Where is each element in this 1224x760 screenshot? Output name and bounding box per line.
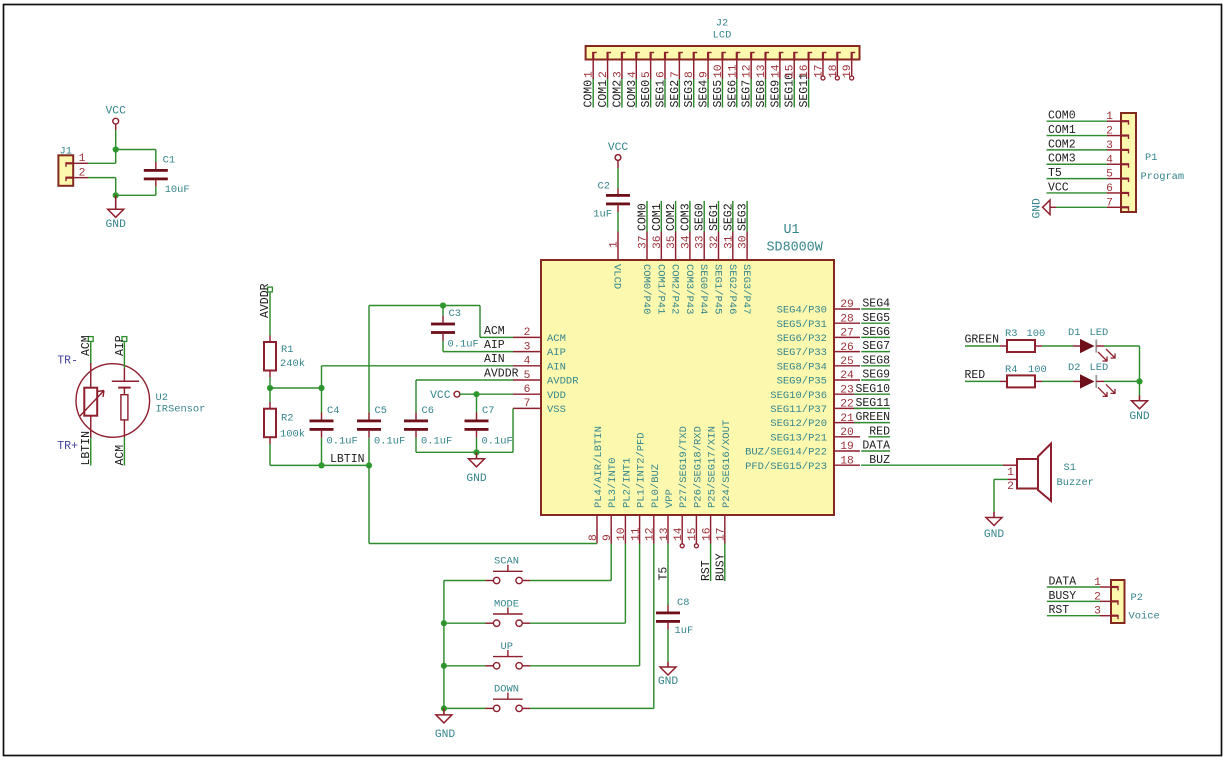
pin 4 of P1 (COM3) [1121,163,1129,165]
pin 17 of U1 (P24/SEG16/XOUT) [724,515,726,544]
svg-text:ACM: ACM [547,333,566,345]
resistor R2 [269,388,271,402]
svg-text:25: 25 [840,356,854,368]
svg-text:2: 2 [524,327,531,339]
wire UP to pin11 [530,665,640,667]
wire R3 to D1 [1042,345,1073,347]
pin 30 of U1 (SEG3) [746,232,748,261]
wire AIP row [443,351,513,353]
svg-text:VCC: VCC [430,390,451,402]
svg-text:SEG4: SEG4 [862,298,890,311]
pin 9 of J2 (SEG4) [707,53,709,60]
svg-text:R3: R3 [1005,328,1017,340]
svg-text:36: 36 [652,235,664,249]
pin 4 of J2 (COM3) [635,53,637,60]
svg-text:7: 7 [1106,197,1113,209]
svg-text:2: 2 [1007,481,1014,493]
wire DOWN to pin12 [530,707,654,709]
svg-text:UP: UP [501,641,513,653]
svg-text:RST: RST [700,560,713,581]
pin 2 of P1 (COM1) [1121,134,1129,136]
svg-text:COM1: COM1 [651,203,664,231]
pin 14 of U1 (P27/SEG19/TXD) [681,515,683,544]
node C5 bottom junction [366,462,372,468]
pin 6 of P1 (VCC) [1121,192,1129,194]
svg-text:COM3: COM3 [679,203,692,231]
node rail at UP [441,663,447,669]
pin 11 of U1 (PL1/INT2/PFD) [639,515,641,544]
wire AVDDR row to C6 [416,379,513,381]
svg-text:5: 5 [1106,169,1113,181]
svg-text:LCD: LCD [713,30,732,42]
svg-text:J1: J1 [60,145,72,157]
svg-text:9: 9 [699,71,711,78]
svg-text:C7: C7 [482,405,494,417]
svg-text:COM2: COM2 [1048,138,1076,151]
svg-text:SEG2/P46: SEG2/P46 [726,264,738,314]
svg-text:SEG10: SEG10 [855,383,890,396]
pin 7 of P1 with ground [1121,206,1129,208]
ground (analog) [476,452,478,459]
pin 6 of U1 (VDD) [513,393,541,395]
svg-text:COM3: COM3 [626,80,639,108]
svg-text:1: 1 [1007,467,1014,479]
svg-text:PFD/SEG15/P23: PFD/SEG15/P23 [745,461,827,473]
svg-text:6: 6 [1106,183,1113,195]
svg-text:PL2/INT1: PL2/INT1 [621,458,633,508]
wire junction to C1 top [116,149,156,151]
svg-text:28: 28 [840,313,854,325]
pin 7 of U1 (VSS) [513,407,541,409]
svg-text:P25/SEG17/XIN: P25/SEG17/XIN [707,426,719,508]
svg-text:100k: 100k [280,429,305,441]
svg-text:SEG1: SEG1 [708,203,721,231]
svg-text:SEG7/P33: SEG7/P33 [777,347,827,359]
svg-text:COM1: COM1 [597,80,610,108]
svg-text:11: 11 [727,64,739,78]
wire ACM rail top [369,305,480,307]
svg-text:S1: S1 [1064,462,1076,474]
svg-text:SEG5: SEG5 [712,80,725,108]
pin 12 of J2 (SEG7) [750,53,752,60]
svg-text:COM1/P41: COM1/P41 [654,264,666,314]
svg-text:ACM: ACM [80,335,93,356]
svg-text:SEG6: SEG6 [862,326,890,339]
wire J1 pin1 to VCC [88,162,116,164]
svg-text:37: 37 [638,235,650,249]
svg-text:4: 4 [524,356,531,368]
net AVDDR power label [268,287,273,292]
svg-text:5: 5 [524,370,531,382]
svg-text:SEG3: SEG3 [737,203,750,231]
wire VCC to VDD pin [460,393,513,395]
svg-text:SEG10/P36: SEG10/P36 [770,390,827,402]
svg-text:4: 4 [1106,154,1113,166]
svg-text:AVDDR: AVDDR [547,376,579,388]
svg-text:18: 18 [828,64,840,78]
capacitor C8 [667,605,669,612]
svg-text:GND: GND [984,529,1005,541]
pin 2 of J1 [73,177,88,179]
svg-text:10uF: 10uF [165,184,190,196]
pin 15 of J2 (SEG10) [793,53,795,60]
wire D2 to junction [1104,380,1140,382]
capacitor C4 [321,388,323,413]
wire VSS ground rail [416,451,513,453]
svg-text:C5: C5 [375,405,387,417]
pin 1 of J2 (COM0) [592,53,594,60]
pin 18 of J2 (unconnected) [836,53,838,60]
svg-text:SEG0: SEG0 [640,80,653,108]
svg-text:COM2: COM2 [611,80,624,108]
pin 23 of U1 (SEG10) [834,393,860,395]
resistor R1 [269,336,271,343]
svg-text:1: 1 [1106,111,1113,123]
svg-text:10: 10 [616,527,628,541]
svg-text:SEG11/P37: SEG11/P37 [770,404,827,416]
svg-text:18: 18 [840,455,854,467]
svg-text:SEG6/P32: SEG6/P32 [777,333,827,345]
svg-text:23: 23 [840,384,854,396]
connector J1 [58,155,73,186]
svg-text:SEG3: SEG3 [683,80,696,108]
svg-text:PL4/AIR/LBTIN: PL4/AIR/LBTIN [593,426,605,508]
net label RED [965,380,1000,382]
op-chip U1 body [541,260,834,515]
wire AIN net [321,366,323,388]
svg-text:13: 13 [756,64,768,78]
pin 1 of S1 [1003,464,1017,466]
power VCC (VDD) [454,391,460,397]
svg-text:DOWN: DOWN [494,684,519,696]
svg-text:MODE: MODE [494,598,519,610]
pin 20 of U1 (RED) [834,436,860,438]
svg-text:17: 17 [716,527,728,541]
svg-text:AIN: AIN [547,361,566,373]
pin 2 of U1 (ACM) [513,336,541,338]
svg-text:2: 2 [1106,126,1113,138]
pin 1 of J1 [73,162,88,164]
svg-text:C1: C1 [163,155,175,167]
svg-text:J2: J2 [716,18,728,30]
net stub AIP (sensor top-right) [122,337,127,342]
capacitor C3 [442,306,444,316]
svg-text:16: 16 [799,64,811,78]
net stub ACM (sensor top-left) [88,337,93,342]
svg-text:R4: R4 [1005,364,1017,376]
svg-text:U2: U2 [156,392,168,404]
node VDD junction [473,391,479,397]
node GND junction (J1) [113,192,119,198]
pin 27 of U1 (SEG6) [834,336,860,338]
svg-text:R2: R2 [281,413,293,425]
svg-text:COM3/P43: COM3/P43 [683,264,695,314]
pin 28 of U1 (SEG5) [834,322,860,324]
pin 1 of U1 (VLCD) with C2 and VCC [615,155,621,161]
svg-text:ACM: ACM [484,325,505,338]
svg-text:RST: RST [1049,604,1070,617]
node rail at MODE [441,620,447,626]
pin 1 of P2 (DATA) [1111,586,1118,588]
svg-text:C6: C6 [422,405,434,417]
wire divider horizontal [270,387,322,389]
svg-text:SEG5/P31: SEG5/P31 [777,319,827,331]
svg-text:LED: LED [1090,362,1109,374]
svg-text:SEG7: SEG7 [741,80,754,108]
svg-text:SEG6: SEG6 [726,80,739,108]
svg-text:VCC: VCC [1048,181,1069,194]
svg-text:GND: GND [658,676,679,688]
pin 19 of U1 (DATA) [834,450,860,452]
connector J2 body [586,46,860,60]
pin 22 of U1 (SEG11) [834,407,860,409]
svg-text:SEG0: SEG0 [694,203,707,231]
pin 14 of J2 (SEG9) [779,53,781,60]
wire J1 pin2 to GND rail [88,177,116,179]
thermopile junction inside U2 [123,368,125,381]
svg-text:2: 2 [598,71,610,78]
pin 3 of U1 (AIP) [513,351,541,353]
svg-text:1: 1 [584,71,596,78]
pin 3 of P1 (COM2) [1121,149,1129,151]
svg-text:100: 100 [1028,364,1047,376]
pin 10 of U1 (PL2/INT1) [624,515,626,544]
svg-text:0.1uF: 0.1uF [421,436,452,448]
svg-text:SEG3/P47: SEG3/P47 [740,264,752,314]
net stub LBTIN (sensor bottom-left) [90,438,92,466]
thermistor inside U2 [90,363,92,388]
svg-text:PL3/INT0: PL3/INT0 [607,458,619,508]
svg-text:SEG2: SEG2 [722,203,735,231]
svg-text:1uF: 1uF [675,625,694,637]
svg-text:AIP: AIP [547,347,566,359]
pin 3 of J2 (COM2) [621,53,623,60]
svg-text:SEG11: SEG11 [855,397,890,410]
svg-text:T5: T5 [658,567,671,581]
net label RST (pin16) [710,544,712,582]
svg-text:32: 32 [709,235,721,249]
svg-text:D1: D1 [1068,327,1080,339]
svg-text:SEG9: SEG9 [862,369,890,382]
svg-text:SEG0/P44: SEG0/P44 [697,264,709,314]
pin 12 of U1 (PL0/BUZ) [653,515,655,544]
svg-text:31: 31 [723,235,735,249]
svg-text:15: 15 [785,64,797,78]
svg-text:SEG2: SEG2 [669,80,682,108]
svg-text:3: 3 [612,71,624,78]
svg-text:D2: D2 [1068,362,1080,374]
svg-text:14: 14 [673,527,685,541]
switch SCAN [444,580,486,582]
pin 17 of J2 (unconnected) [822,53,824,60]
pin 8 of J2 (SEG3) [693,53,695,60]
svg-text:P27/SEG19/TXD: P27/SEG19/TXD [678,426,690,508]
node C4 bottom junction [318,462,324,468]
svg-text:SEG4: SEG4 [698,80,711,108]
diode D2 LED [1073,380,1080,382]
pin 3 of P2 (RST) [1111,615,1118,617]
wire R4 to D2 [1042,380,1073,382]
resistor R4 [1000,380,1007,382]
pin 10 of J2 (SEG5) [721,53,723,60]
svg-text:27: 27 [840,328,854,340]
svg-text:30: 30 [738,235,750,249]
svg-text:DATA: DATA [1049,575,1077,588]
svg-text:COM2/P42: COM2/P42 [669,264,681,314]
svg-text:Voice: Voice [1129,611,1160,623]
pin 31 of U1 (SEG2) [732,232,734,261]
pin 2 of P2 (BUSY) [1111,600,1118,602]
pin 15 unconnected circle [694,544,698,548]
svg-text:U1: U1 [784,223,800,238]
svg-text:0.1uF: 0.1uF [374,436,405,448]
svg-text:GREEN: GREEN [965,334,1000,347]
svg-text:GND: GND [1129,411,1150,423]
pin 15 of U1 (P26/SEG18/RXD) [695,515,697,544]
pin 37 of U1 (COM0) [646,232,648,261]
svg-text:AIN: AIN [484,353,505,366]
svg-text:COM0: COM0 [637,203,650,231]
svg-text:C3: C3 [449,308,461,320]
svg-text:0.1uF: 0.1uF [448,339,479,351]
svg-text:BUSY: BUSY [714,553,727,581]
wire VCC to junction [115,124,117,130]
svg-text:34: 34 [680,235,692,249]
svg-text:SEG9/P35: SEG9/P35 [777,376,827,388]
svg-text:SEG1/P45: SEG1/P45 [712,264,724,314]
svg-text:3: 3 [524,341,531,353]
svg-text:16: 16 [701,527,713,541]
pin 5 of J2 (SEG0) [650,53,652,60]
svg-text:2: 2 [79,167,86,179]
ground (buzzer) [993,512,995,518]
capacitor C5 [368,306,370,413]
svg-text:SEG8: SEG8 [862,354,890,367]
svg-text:8: 8 [684,71,696,78]
wire LBTIN rail [270,464,369,466]
connector P2 body [1111,580,1125,623]
wire C1 bottom to GND junction [155,180,157,186]
svg-text:P26/SEG18/RXD: P26/SEG18/RXD [692,426,704,508]
svg-text:19: 19 [842,64,854,78]
svg-text:1uF: 1uF [593,209,612,221]
svg-text:LED: LED [1090,327,1109,339]
svg-text:VLCD: VLCD [611,264,623,289]
svg-text:SEG9: SEG9 [769,80,782,108]
pin 14 unconnected circle [680,544,684,548]
svg-text:12: 12 [645,527,657,541]
svg-text:9: 9 [602,534,614,541]
node divider junction [267,385,273,391]
pin 2 of J2 (COM1) [606,53,608,60]
svg-text:GND: GND [106,219,127,231]
svg-text:SD8000W: SD8000W [767,241,824,256]
net label BUSY (pin17) [724,544,726,582]
ground (buttons) [443,708,445,715]
svg-text:PL0/BUZ: PL0/BUZ [650,464,662,508]
svg-text:T5: T5 [1048,167,1062,180]
svg-text:TR+: TR+ [57,440,78,453]
svg-text:COM0: COM0 [583,80,596,108]
svg-text:AIP: AIP [484,339,505,352]
svg-text:21: 21 [840,413,854,425]
svg-text:LBTIN: LBTIN [80,431,93,466]
wire pin8 to LBTIN net [369,543,597,545]
svg-text:15: 15 [687,527,699,541]
net label GREEN [965,345,1000,347]
pin 25 of U1 (SEG8) [834,365,860,367]
wire SCAN to pin9 [530,580,611,582]
pin 5 of P1 (T5) [1121,178,1129,180]
wire MODE to pin10 [530,622,625,624]
wire R1 bottom to divider node [269,377,271,388]
pin 13 of J2 (SEG8) [764,53,766,60]
wire D1 to corner [1104,345,1140,347]
pin 21 of U1 (GREEN) [834,422,860,424]
pin 35 of U1 (COM2) [675,232,677,261]
pin 16 of U1 (P25/SEG17/XIN) [710,515,712,544]
svg-text:17: 17 [813,64,825,78]
svg-text:RED: RED [965,369,986,382]
svg-text:AIP: AIP [114,335,127,356]
node LED cathode junction [1136,378,1142,384]
pin 32 of U1 (SEG1) [718,232,720,261]
svg-text:6: 6 [524,384,531,396]
capacitor C1 [144,169,168,172]
pin 16 of J2 (SEG11) [807,53,809,60]
svg-text:VCC: VCC [608,142,629,154]
svg-text:VCC: VCC [106,106,127,118]
pin 4 of U1 (AIN) [513,365,541,367]
pin 1 of P1 (COM0) [1121,120,1129,122]
svg-text:4: 4 [627,71,639,78]
svg-text:7: 7 [670,71,682,78]
svg-text:GND: GND [1032,198,1044,219]
svg-text:VSS: VSS [547,404,566,416]
svg-text:LBTIN: LBTIN [330,453,365,466]
pin 11 of J2 (SEG6) [736,53,738,60]
pin 24 of U1 (SEG9) [834,379,860,381]
node at C4 column [318,385,324,391]
svg-text:P1: P1 [1145,152,1157,164]
svg-text:C4: C4 [327,405,339,417]
svg-text:GND: GND [435,729,456,741]
svg-text:P2: P2 [1131,592,1143,604]
resistor R3 [1000,345,1007,347]
svg-text:0.1uF: 0.1uF [482,436,513,448]
ground (J1) [115,195,117,209]
svg-text:AVDDR: AVDDR [484,367,519,380]
svg-text:COM0: COM0 [1048,110,1076,123]
svg-text:VPP: VPP [664,489,676,508]
svg-text:COM3: COM3 [1048,153,1076,166]
svg-text:SEG5: SEG5 [862,312,890,325]
pin 19 of J2 (unconnected) [851,53,853,60]
pin 8 of U1 (PL4/AIR/LBTIN) [596,515,598,544]
svg-text:7: 7 [524,398,531,410]
svg-text:5: 5 [641,71,653,78]
svg-text:GND: GND [466,473,487,485]
svg-text:Buzzer: Buzzer [1057,477,1094,489]
node C3 top junction [440,302,446,308]
svg-text:8: 8 [588,534,600,541]
svg-text:14: 14 [770,64,782,78]
pin 13 of U1 (VPP) [667,515,669,544]
svg-text:COM2: COM2 [665,203,678,231]
pin 9 of U1 (PL3/INT0) [610,515,612,544]
sensor U2 circle [76,364,150,438]
pin 26 of U1 (SEG7) [834,351,860,353]
